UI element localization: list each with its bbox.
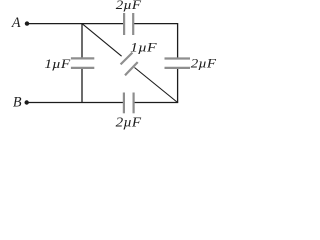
wire: right branch upper segment	[177, 24, 179, 59]
wire: B to bottom rail left of C4	[27, 102, 124, 104]
wire: diagonal lower segment to bottom-right corner	[135, 68, 178, 103]
svg-text:1µF: 1µF	[44, 56, 71, 71]
capacitor C5 1uF diagonal plates	[121, 53, 133, 65]
wire: top rail right of C2 to top-right corner	[133, 23, 178, 25]
wire: left branch lower segment	[81, 68, 83, 103]
wire: left branch upper segment	[81, 24, 83, 59]
capacitor C3 2uF right branch plates	[165, 57, 191, 59]
svg-text:2µF: 2µF	[191, 56, 217, 71]
svg-text:B: B	[13, 95, 22, 111]
node B terminal dot	[25, 100, 29, 104]
svg-text:2µF: 2µF	[116, 115, 142, 130]
capacitor C1 1uF left branch plates	[71, 57, 94, 59]
node A terminal dot	[25, 21, 29, 25]
wire: bottom rail right of C4 to bottom-right corner	[134, 102, 179, 104]
svg-text:1µF: 1µF	[130, 40, 158, 55]
svg-text:A: A	[11, 15, 21, 31]
wire: A to top-left of C2 (top rail left)	[27, 23, 124, 25]
capacitor C4 2uF bottom branch plates	[123, 93, 125, 114]
capacitor C2 2uF top branch plates	[123, 13, 125, 35]
wire: diagonal upper segment from top-left junction	[82, 24, 122, 57]
svg-text:2µF: 2µF	[116, 0, 143, 12]
wire: right branch lower segment	[177, 68, 179, 103]
